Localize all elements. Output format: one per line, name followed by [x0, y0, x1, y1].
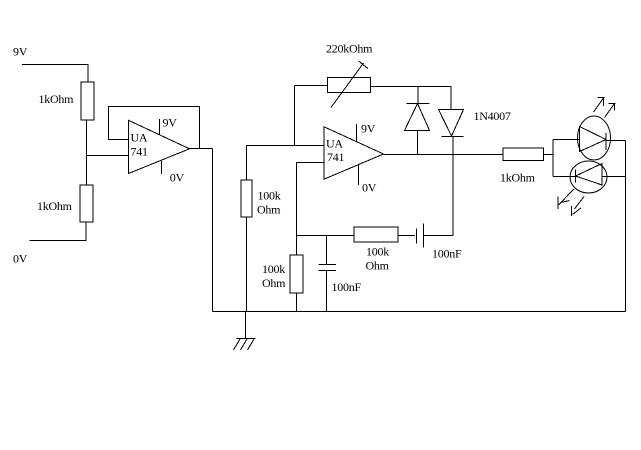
- svg-text:100nF: 100nF: [432, 247, 462, 261]
- svg-text:0V: 0V: [170, 171, 185, 185]
- wire C1 top stub: [326, 236, 328, 265]
- op-amp U2: [324, 127, 384, 179]
- svg-text:1kOhm: 1kOhm: [39, 92, 75, 106]
- wire C2 to D2 node: [424, 235, 454, 237]
- svg-text:9V: 9V: [361, 122, 376, 136]
- wire R3 bottom to rail: [246, 217, 248, 312]
- wire U2 output: [384, 154, 504, 156]
- wire bottom rail: [213, 311, 626, 313]
- U1 pin 0V: [161, 161, 163, 174]
- wire R6 to LED junction: [544, 154, 554, 156]
- wire feedback node: [297, 235, 355, 237]
- svg-text:741: 741: [327, 150, 345, 164]
- wire R4 bottom to rail: [296, 293, 298, 312]
- wire LED D3 cathode: [606, 140, 626, 142]
- svg-text:100nF: 100nF: [332, 280, 362, 294]
- wire U2 non-inverting input: [297, 163, 325, 236]
- wire D1 top stub: [417, 87, 419, 104]
- op-amp U1: [129, 120, 190, 173]
- wire U1 feedback loop: [109, 107, 200, 149]
- wire right rail: [625, 141, 627, 312]
- svg-text:0V: 0V: [13, 252, 28, 266]
- LED D3 light arrows: [594, 98, 604, 112]
- svg-text:100k: 100k: [262, 262, 285, 276]
- svg-text:Ohm: Ohm: [366, 259, 390, 273]
- resistor R4 100k Ohm: [290, 255, 303, 293]
- wire R3 top to U2 inverting input: [247, 146, 325, 181]
- svg-text:Ohm: Ohm: [262, 276, 286, 290]
- wire divider node: [86, 120, 88, 185]
- svg-text:UA: UA: [131, 131, 148, 145]
- svg-text:1N4007: 1N4007: [474, 109, 511, 123]
- U2 pin 9V: [356, 124, 358, 142]
- capacitor C1 100nF: [319, 264, 337, 266]
- resistor R2 1kOhm: [80, 185, 93, 222]
- wire 220k left: [295, 85, 328, 87]
- resistor R5 100k Ohm: [354, 227, 398, 242]
- svg-text:9V: 9V: [163, 116, 178, 130]
- wire C1 bottom stub: [326, 271, 328, 312]
- potentiometer RV1 220kOhm: [328, 78, 371, 93]
- svg-text:741: 741: [131, 145, 149, 159]
- wire U1 output down: [212, 149, 214, 312]
- wire LED junction vertical: [552, 140, 554, 177]
- wire 9V rail: [22, 65, 88, 83]
- LED D4: [570, 161, 607, 193]
- wire to LED D3 anode: [553, 139, 580, 141]
- svg-text:100k: 100k: [258, 189, 281, 203]
- resistor R3 100k Ohm: [241, 180, 252, 217]
- wire R5 to C2: [398, 235, 415, 237]
- diode D1: [407, 103, 430, 105]
- wire R2 to 0V: [30, 222, 87, 241]
- wire D2 bottom to cap node: [452, 137, 454, 236]
- U1 pin 9V: [159, 119, 161, 135]
- wire D2 top stub: [450, 87, 452, 110]
- U2 pin 0V: [358, 165, 360, 185]
- diode D2 1N4007: [439, 110, 464, 137]
- svg-text:Ohm: Ohm: [257, 203, 281, 217]
- svg-text:1kOhm: 1kOhm: [500, 171, 536, 185]
- LED D3: [578, 116, 611, 160]
- wire U1 output: [190, 148, 213, 150]
- wire 220k right: [371, 86, 452, 88]
- svg-text:0V: 0V: [362, 181, 377, 195]
- svg-text:100k: 100k: [366, 245, 389, 259]
- wire to LED D4: [553, 176, 576, 178]
- wire to U1 non-inverting input: [87, 155, 129, 157]
- resistor R1 1kOhm: [81, 82, 94, 120]
- svg-text:9V: 9V: [13, 45, 28, 59]
- wire LED D4 right: [602, 176, 626, 178]
- ground: [245, 312, 247, 339]
- resistor R6 1kOhm: [503, 148, 544, 161]
- svg-text:1kOhm: 1kOhm: [37, 199, 73, 213]
- svg-text:220kOhm: 220kOhm: [326, 42, 373, 56]
- capacitor C2 100nF: [416, 229, 418, 244]
- svg-text:UA: UA: [326, 137, 343, 151]
- wire 220k left drop: [294, 86, 296, 146]
- wire R4 top: [296, 236, 298, 256]
- LED D4 light arrows: [559, 189, 575, 205]
- wire D1 bottom stub: [417, 131, 419, 155]
